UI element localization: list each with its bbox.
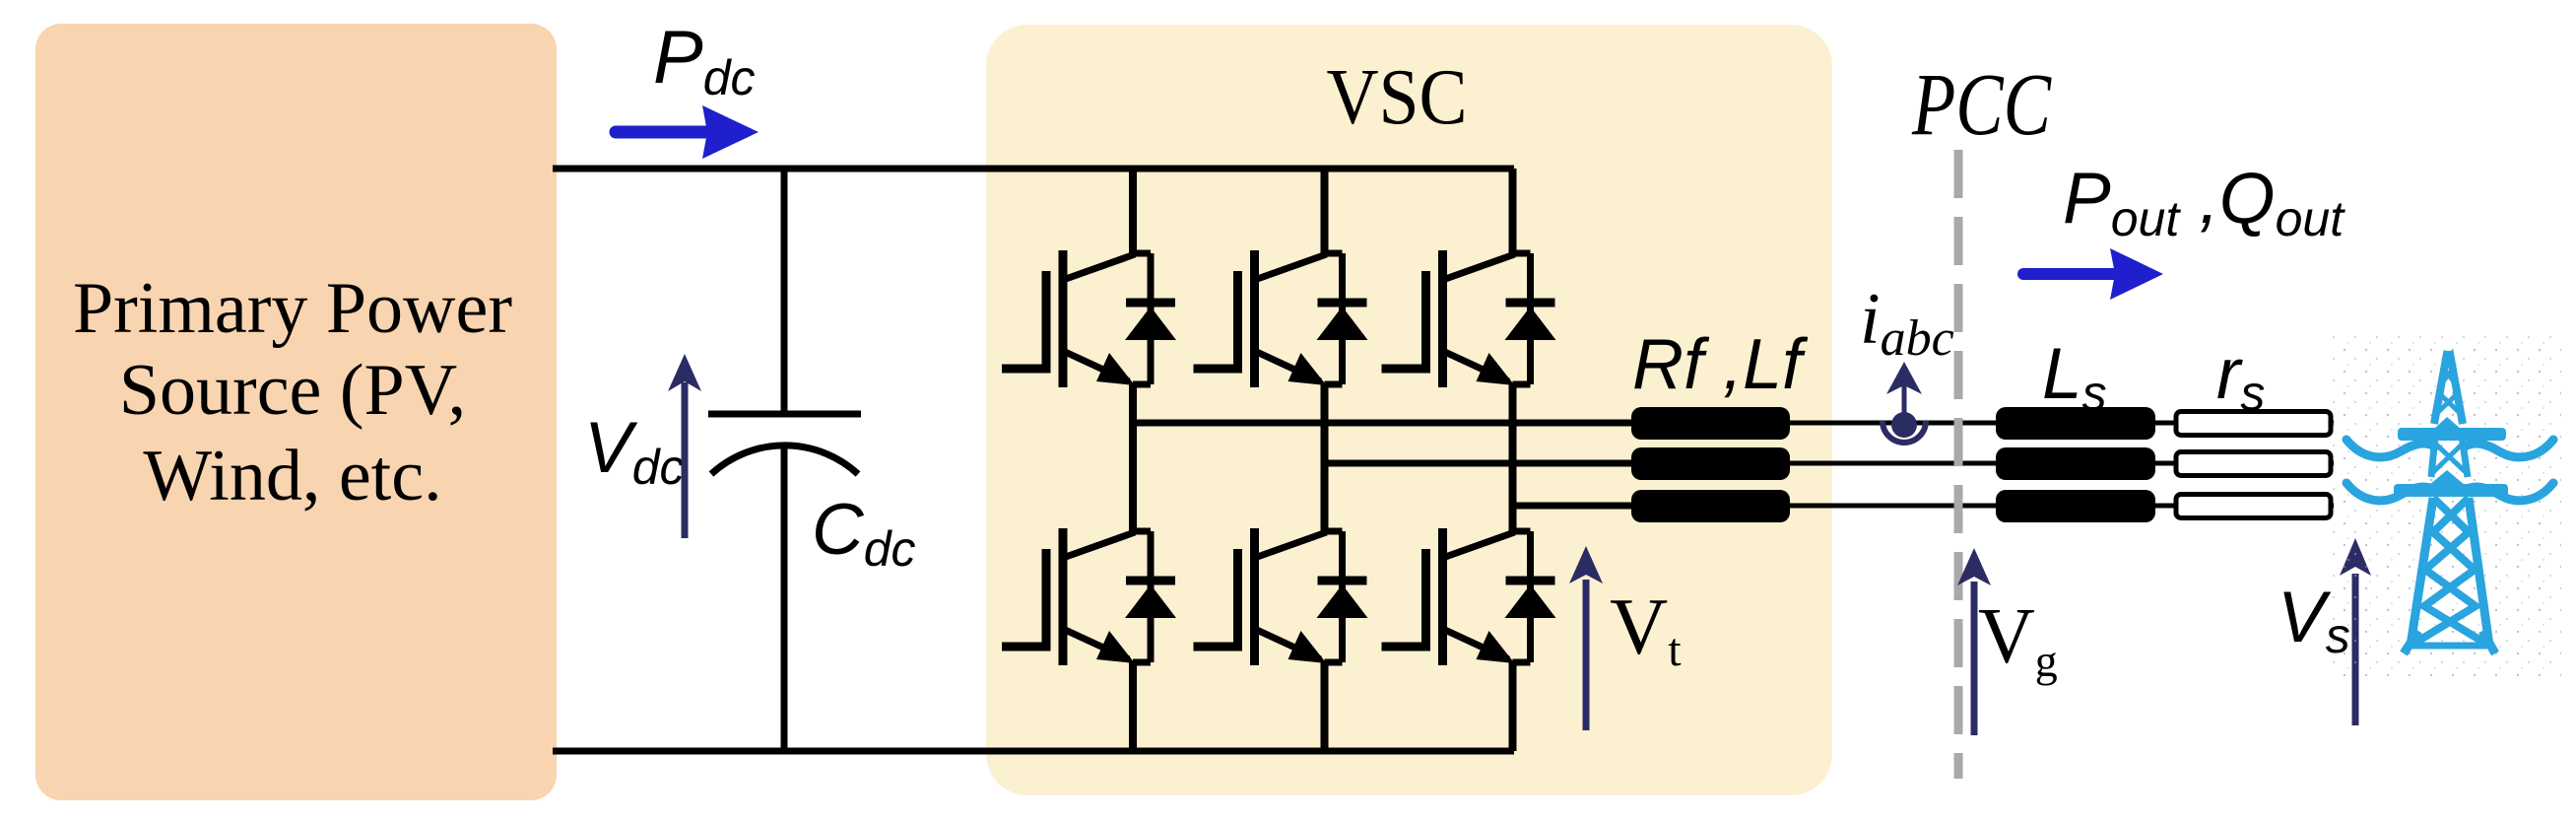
- svg-text:Rf ,Lf: Rf ,Lf: [1632, 325, 1809, 404]
- svg-text:VSC: VSC: [1327, 54, 1468, 141]
- svg-text:Wind, etc.: Wind, etc.: [143, 436, 441, 516]
- svg-text:Ls: Ls: [2042, 334, 2107, 421]
- svg-text:iabc: iabc: [1860, 279, 1954, 367]
- svg-text:rs: rs: [2216, 334, 2265, 421]
- svg-text:Cdc: Cdc: [812, 490, 916, 577]
- svg-text:Pout ,Qout: Pout ,Qout: [2063, 159, 2345, 246]
- svg-text:Vdc: Vdc: [584, 408, 685, 495]
- svg-text:Vg: Vg: [1978, 593, 2058, 686]
- svg-text:PCC: PCC: [1911, 56, 2052, 154]
- svg-text:Pdc: Pdc: [653, 16, 756, 105]
- svg-text:Primary Power: Primary Power: [73, 268, 512, 349]
- svg-text:Source (PV,: Source (PV,: [119, 350, 466, 431]
